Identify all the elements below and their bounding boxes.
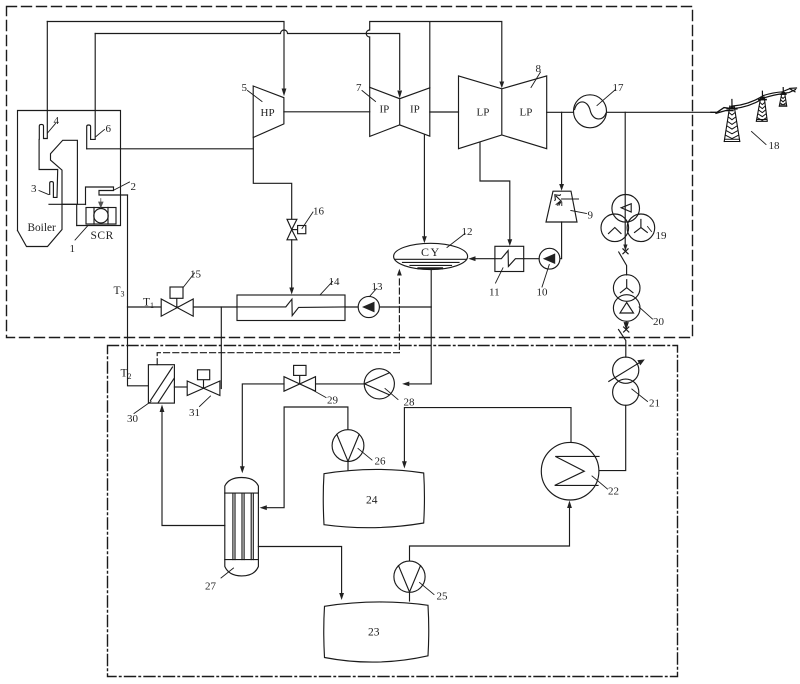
heater loop into tank 24: [404, 408, 571, 462]
pump 26 impeller: [337, 434, 359, 461]
label 31 with leader: [200, 396, 211, 407]
svg-text:20: 20: [653, 316, 665, 328]
arrow into tank 24: [402, 461, 407, 468]
label 4 with leader: [48, 124, 56, 134]
HP turbine 5: [253, 86, 284, 138]
pump 25 impeller: [399, 566, 421, 592]
transformer 21 (variable, two winding): [613, 357, 639, 405]
hot reheat arrow into IP: [397, 91, 402, 99]
label 5 with leader: [248, 91, 263, 102]
svg-text:IP: IP: [380, 104, 390, 116]
arrow into condenser bottom: [397, 269, 402, 276]
svg-text:6: 6: [106, 123, 112, 135]
line 21 to electric heater 22: [599, 405, 626, 470]
label 9 with leader: [571, 211, 587, 214]
tank 23: [324, 602, 429, 662]
hot reheat line B to IP (with hop over x=284): [95, 30, 400, 90]
SCR inlet hook 2: [86, 187, 128, 205]
svg-text:1: 1: [70, 243, 76, 255]
disconnect switch between 19 and 20: [623, 245, 627, 252]
svg-text:22: 22: [608, 486, 619, 498]
label 6 with leader: [96, 130, 105, 137]
pump 28 impeller: [364, 373, 389, 395]
step-up transformer 19 drop line: [624, 112, 626, 247]
pump 13: [358, 296, 379, 317]
heat exchanger 11 bolt symbol: [495, 251, 524, 267]
branch to flue gas heater loop: [220, 307, 222, 389]
line pump 26 to tank 24: [347, 462, 349, 471]
label 18 with leader: [752, 132, 767, 145]
line valve 29 down to column 27: [242, 384, 284, 467]
IP turbine 7 (double flow): [370, 87, 430, 136]
transformer 19 chevron symbol: [609, 228, 622, 234]
svg-text:19: 19: [656, 230, 668, 242]
line into heat exchanger 30: [128, 307, 149, 386]
svg-text:10: 10: [537, 287, 549, 299]
label 1 with leader: [75, 226, 88, 240]
arrow into heater 22 bottom: [567, 501, 572, 509]
svg-text:24: 24: [366, 495, 378, 507]
svg-text:16: 16: [313, 206, 325, 218]
ejector 9 trapezoid: [546, 191, 577, 222]
LP-generator shaft: [547, 111, 574, 113]
svg-text:28: 28: [404, 397, 416, 409]
svg-text:Boiler: Boiler: [28, 222, 56, 234]
boiler furnace inner wall: [39, 140, 58, 198]
svg-text:4: 4: [54, 115, 60, 127]
svg-text:CY: CY: [421, 245, 441, 259]
line ejector 9 to pump 10: [560, 222, 562, 259]
line tank 24 via pump 26 to column 27: [267, 407, 348, 508]
svg-text:LP: LP: [477, 107, 490, 119]
LP turbine 8 (double flow): [459, 76, 547, 149]
heater 22 element symbol: [555, 456, 599, 485]
pump 10 impeller: [543, 253, 555, 264]
SCR reactor box 1: [86, 208, 116, 225]
svg-text:LP: LP: [520, 107, 533, 119]
line pump 25 to heater 22: [410, 509, 570, 562]
SCR chamber walls: [62, 204, 77, 225]
svg-text:23: 23: [368, 627, 380, 639]
generator 17: [574, 95, 607, 128]
valve 29: [284, 377, 316, 392]
label 2 with leader: [114, 182, 130, 190]
superheater hook 4: [39, 22, 47, 140]
svg-text:15: 15: [190, 269, 202, 281]
svg-text:2: 2: [131, 181, 137, 193]
line heat exchanger 30 to valve 31: [174, 386, 187, 388]
svg-text:7: 7: [356, 82, 362, 94]
arrow into heat exchanger 30 bottom: [160, 405, 165, 413]
line pump 10 to heat exchanger 11: [524, 258, 539, 260]
HP-IP shaft: [284, 111, 370, 113]
svg-text:29: 29: [327, 395, 339, 407]
label 14 with leader: [320, 282, 333, 296]
label 29 with leader: [313, 390, 327, 398]
line LP shaft down to ejector 9: [561, 112, 563, 184]
label 25 with leader: [420, 583, 435, 595]
tank 24: [323, 469, 424, 527]
svg-text:30: 30: [127, 413, 139, 425]
tower 2: [761, 91, 763, 97]
svg-text:17: 17: [613, 82, 625, 94]
label 11 with leader: [496, 268, 504, 283]
heat exchanger 30 diagonals: [151, 367, 175, 403]
arrow into tank 23: [339, 593, 344, 600]
condenser outlet downcomer: [430, 270, 432, 384]
generator sine wave: [575, 102, 606, 119]
tower 3: [782, 88, 784, 93]
label 22 with leader: [592, 476, 608, 489]
label 26 with leader: [358, 449, 372, 461]
arrow into column 27 side: [260, 505, 267, 510]
heater 14 break symbol: [237, 299, 345, 315]
transformer 19 delta symbol: [621, 204, 631, 212]
SCR catalyst circle: [94, 209, 108, 223]
label 10 with leader: [542, 265, 549, 288]
arrow into heater 14: [289, 288, 294, 295]
HP extraction line down to valve 16: [253, 138, 291, 220]
LP exhaust to heat exchanger 11: [480, 142, 510, 240]
line condenser downcomer to pump 28: [409, 383, 432, 385]
column 27 tube sheets: [225, 493, 259, 559]
valve 16: [287, 219, 297, 240]
pump 25: [394, 561, 425, 592]
arrow into pump 28: [402, 382, 409, 387]
svg-text:18: 18: [769, 140, 781, 152]
main steam line A to HP: [47, 22, 284, 89]
label 15 with leader: [184, 273, 195, 287]
lower section dash-dot border: [108, 346, 678, 677]
transformer 19 wye symbol: [635, 220, 648, 233]
label 17 with leader: [597, 90, 616, 106]
svg-text:11: 11: [489, 287, 500, 299]
valve 31 actuator: [203, 380, 205, 389]
main steam arrow into HP: [282, 89, 287, 97]
label 3 with leader: [39, 191, 49, 195]
arrow into condenser from 11: [468, 256, 475, 261]
svg-text:9: 9: [588, 210, 594, 222]
pump 13 impeller: [362, 302, 375, 313]
label 21 with leader: [632, 389, 648, 402]
arrow into ejector 9: [559, 184, 564, 191]
condenser 12 ellipse CY: [394, 243, 468, 269]
line pump 25 to tank 23: [409, 592, 411, 601]
arrow into condenser top: [422, 236, 427, 243]
SCR inner cell walls: [94, 208, 108, 225]
label 16 with leader: [302, 212, 313, 229]
reaction column 27: [225, 478, 259, 576]
svg-text:HP: HP: [261, 107, 275, 119]
label 13 with leader: [370, 289, 377, 297]
condenser water level lines: [395, 259, 467, 265]
pump 26: [332, 430, 364, 462]
pump 10: [539, 248, 560, 269]
electric heater 22: [541, 442, 599, 500]
IP-LP shaft: [430, 111, 459, 113]
svg-text:21: 21: [649, 398, 660, 410]
IP exhaust line down to condenser: [423, 135, 425, 237]
SCR inlet arrow: [99, 199, 103, 208]
svg-text:SCR: SCR: [91, 230, 114, 242]
valve 16 actuator box: [292, 229, 298, 231]
transformer 20 delta symbol: [620, 303, 634, 314]
label 19 with leader: [648, 227, 652, 232]
valve 15 actuator: [176, 298, 178, 307]
transmission towers 18: [711, 88, 797, 142]
svg-text:3: 3: [31, 183, 37, 195]
valve 15: [161, 299, 193, 316]
makeup water dashed line to condenser: [157, 276, 399, 365]
svg-text:25: 25: [437, 591, 449, 603]
svg-text:26: 26: [375, 456, 387, 468]
reheater hook 6: [87, 34, 96, 149]
transformer 21 arrow: [609, 362, 641, 382]
arrow into heat exchanger 11: [507, 239, 512, 246]
svg-text:31: 31: [189, 407, 200, 419]
label 20 with leader: [639, 307, 653, 319]
label 7 with leader: [362, 91, 376, 102]
upper section dash border: [7, 7, 693, 338]
main water line T1: [128, 306, 432, 308]
svg-text:14: 14: [329, 276, 341, 288]
valve 29 actuator: [299, 375, 301, 384]
heat exchanger 30 box: [148, 365, 174, 403]
boiler furnace floor: [49, 203, 86, 205]
valve 31: [187, 381, 220, 396]
label 8 with leader: [531, 72, 541, 88]
flue gas outlet line from SCR down to T3: [127, 195, 129, 307]
arrow into column 27 top: [240, 466, 245, 473]
line heat exchanger 11 to condenser: [475, 258, 495, 260]
svg-text:IP: IP: [410, 104, 420, 116]
tower 1: [731, 100, 733, 107]
line column 27 to heat exchanger 30: [162, 412, 225, 526]
label 12 with leader: [447, 234, 465, 248]
disconnect switch between 20 and 21: [624, 321, 628, 329]
line pump 28 to valve 29: [316, 383, 365, 385]
transformer 20 (two winding): [613, 275, 640, 322]
boiler hopper: [18, 140, 78, 246]
boiler outer shell: [18, 111, 121, 231]
ejector 9 spray symbol: [562, 198, 579, 200]
extraction line valve 16 to heater 14: [291, 240, 293, 288]
transformer 20 wye symbol: [620, 280, 633, 293]
label 28 with leader: [385, 389, 398, 400]
svg-text:13: 13: [372, 281, 384, 293]
svg-text:12: 12: [462, 226, 473, 238]
heat exchanger 11 box: [495, 246, 524, 271]
column 27 tubes: [233, 493, 253, 559]
line column 27 to tank 23: [258, 547, 341, 594]
svg-text:5: 5: [242, 82, 248, 94]
cold reheat line from HP to boiler: [87, 148, 254, 150]
IP-LP crossover bridge: [366, 22, 502, 88]
svg-text:8: 8: [536, 63, 542, 75]
transformer 19 (three winding): [601, 195, 655, 242]
wires from generator to towers: [711, 108, 733, 114]
label 27 with leader: [221, 568, 234, 578]
label 30 with leader: [134, 402, 151, 414]
svg-text:27: 27: [205, 581, 217, 593]
pump 28: [364, 369, 394, 399]
crossover arrow into LP: [499, 82, 504, 89]
generator output line: [607, 111, 712, 113]
heater 14 rectangle: [237, 295, 345, 321]
